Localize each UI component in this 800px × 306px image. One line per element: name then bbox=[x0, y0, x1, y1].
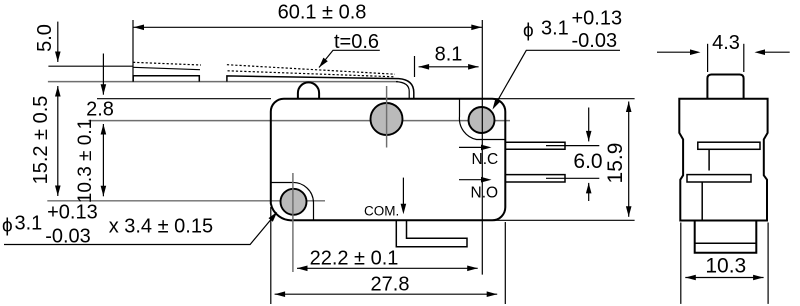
svg-text:ϕ: ϕ bbox=[2, 216, 13, 237]
hole crossline lower bbox=[47, 200, 325, 202]
lever dashed tip bbox=[133, 62, 201, 65]
hole crosshair vertical bottom-left bbox=[292, 173, 294, 272]
dim extension right x482 bbox=[481, 20, 483, 275]
side view stem2 bbox=[701, 182, 703, 221]
boss top-right bbox=[459, 99, 505, 140]
dim 10.3 line bbox=[685, 277, 763, 279]
dim 10.3 line bbox=[102, 124, 104, 196]
dim 8.1 tick bbox=[414, 56, 416, 77]
dim 2.8 line bbox=[102, 54, 104, 95]
mounting hole bottom-left bbox=[281, 189, 307, 215]
svg-text:22.2 ± 0.1: 22.2 ± 0.1 bbox=[310, 248, 399, 270]
t=0.6 leader bbox=[319, 50, 380, 67]
lever dashed arm upper bbox=[227, 65, 395, 75]
side view body bbox=[679, 99, 767, 221]
N.O blade slot / 6.0 extension bbox=[546, 177, 599, 179]
top hole leader bbox=[495, 50, 621, 106]
dim 15.2 line bbox=[57, 86, 59, 196]
svg-text:2.8: 2.8 bbox=[86, 99, 114, 121]
svg-text:15.2 ± 0.5: 15.2 ± 0.5 bbox=[30, 96, 52, 185]
dim 27.8 extension left bbox=[270, 207, 272, 304]
svg-text:-0.03: -0.03 bbox=[572, 30, 618, 52]
plunger bump bbox=[298, 82, 319, 98]
N.C arrow bbox=[459, 146, 488, 148]
svg-text:8.1: 8.1 bbox=[435, 44, 463, 66]
dim 10.3 extensions bbox=[680, 223, 682, 304]
side view base block bbox=[695, 221, 757, 253]
dim 6.0 lower line bbox=[588, 183, 590, 201]
dim 15.9 line bbox=[628, 102, 630, 217]
lever strip2 outer bbox=[227, 76, 414, 99]
dim 4.3 extensions bbox=[707, 44, 709, 72]
COM terminal bbox=[396, 220, 467, 247]
lever strip1 bbox=[133, 76, 199, 82]
dim 27.8 extension right bbox=[504, 222, 506, 304]
svg-text:COM.: COM. bbox=[364, 204, 399, 219]
hole crossline upper bbox=[89, 120, 511, 122]
svg-text:+0.13: +0.13 bbox=[572, 8, 623, 30]
N.O arrow bbox=[459, 179, 488, 181]
plunger circle bbox=[371, 103, 403, 135]
svg-text:5.0: 5.0 bbox=[34, 24, 56, 52]
switch body outline bbox=[271, 99, 506, 221]
side view bar2 bbox=[687, 175, 751, 182]
dim 22.2 line bbox=[297, 267, 478, 269]
body top extension line bbox=[97, 98, 271, 100]
lever strip2 inner bend bbox=[396, 82, 409, 99]
svg-text:3.1: 3.1 bbox=[15, 213, 43, 235]
N.C blade slot / 6.0 extension bbox=[546, 145, 599, 147]
svg-text:ϕ: ϕ bbox=[523, 21, 534, 42]
side view base inner line bbox=[695, 242, 757, 244]
body bottom extension right bbox=[494, 219, 635, 221]
svg-text:6.0: 6.0 bbox=[573, 150, 602, 173]
svg-text:+0.13: +0.13 bbox=[47, 202, 98, 224]
bottom hole leader bbox=[4, 215, 275, 244]
dim 27.8 line bbox=[275, 293, 498, 295]
svg-text:10.3 ± 0.1: 10.3 ± 0.1 bbox=[75, 119, 96, 203]
svg-text:27.8: 27.8 bbox=[371, 274, 410, 296]
dim 5.0 line bbox=[57, 22, 59, 62]
svg-text:10.3: 10.3 bbox=[705, 255, 746, 278]
plunger crosshair vertical bbox=[386, 86, 388, 148]
svg-text:N.O: N.O bbox=[471, 185, 499, 202]
side view plunger bbox=[707, 75, 743, 99]
lever tip top reference line bbox=[48, 65, 132, 67]
side view stem1 bbox=[708, 149, 710, 170]
N.C terminal blade bbox=[505, 142, 565, 149]
svg-text:60.1 ± 0.8: 60.1 ± 0.8 bbox=[278, 2, 367, 24]
COM arrow bbox=[402, 178, 404, 211]
svg-text:N.C: N.C bbox=[472, 151, 499, 168]
svg-text:15.9: 15.9 bbox=[604, 143, 627, 184]
svg-text:3.1: 3.1 bbox=[541, 18, 569, 40]
dim 4.3 arrows bbox=[657, 51, 697, 53]
dim 60.1 extension left bbox=[132, 20, 134, 82]
mounting hole top-right bbox=[469, 107, 495, 133]
lever dashed arm lower bbox=[228, 71, 396, 77]
dim 60.1 line bbox=[133, 26, 482, 28]
lever solid tip slope bbox=[133, 67, 200, 69]
body top extension right bbox=[494, 98, 635, 100]
boss bottom-left bbox=[271, 182, 314, 220]
svg-text:4.3: 4.3 bbox=[712, 32, 740, 54]
lever bottom line (grey) bbox=[48, 81, 398, 83]
svg-text:x 3.4 ± 0.15: x 3.4 ± 0.15 bbox=[109, 216, 213, 238]
N.O terminal blade bbox=[505, 175, 565, 182]
dim 8.1 line bbox=[419, 66, 479, 68]
dim 6.0 upper line bbox=[588, 108, 590, 142]
side view bar1 bbox=[698, 142, 760, 149]
